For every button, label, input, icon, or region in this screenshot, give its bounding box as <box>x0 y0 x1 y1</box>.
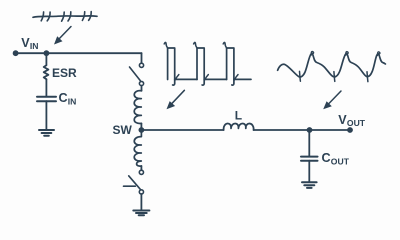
wire COUT to ground <box>308 161 310 182</box>
noise waveform sketch (input HF ripple) <box>33 12 97 22</box>
node A (VIN / ESR junction) <box>44 50 50 56</box>
capacitor CIN <box>37 97 56 101</box>
inductor L <box>224 123 254 130</box>
arrow to VIN node <box>54 27 71 45</box>
wire node B down to COUT <box>308 130 310 156</box>
wire CIN to ground <box>45 101 47 129</box>
wire S2 to ground <box>140 194 142 210</box>
terminal dot VOUT <box>347 127 353 133</box>
wire corner down to switch S1 <box>141 53 143 63</box>
svg-text:OUT: OUT <box>347 118 366 128</box>
resistor ESR <box>44 65 49 79</box>
switch S1 (high-side, open) <box>130 63 144 85</box>
ground (CIN) <box>39 130 54 136</box>
wire SW to L <box>141 129 223 131</box>
svg-text:OUT: OUT <box>331 156 350 166</box>
label VOUT <box>338 113 365 128</box>
switch S2 (low-side, open) <box>124 170 144 194</box>
svg-text:L: L <box>235 109 242 123</box>
svg-text:SW: SW <box>113 123 133 137</box>
svg-text:ESR: ESR <box>52 66 77 80</box>
terminal dot VIN <box>13 50 19 56</box>
wire ESR to CIN <box>45 79 47 96</box>
inductor winding (upper) <box>134 91 141 124</box>
inductor winding (lower) <box>134 130 141 166</box>
ground (COUT) <box>302 182 317 188</box>
arrow to SW node <box>167 90 185 109</box>
wire VIN horizontal <box>16 52 142 54</box>
capacitor COUT <box>301 157 318 161</box>
arrow to VOUT node <box>323 91 341 109</box>
wire node A down to ESR <box>45 53 47 65</box>
square wave sketch (SW node waveform) <box>164 42 251 85</box>
label COUT <box>322 151 350 166</box>
node SW <box>139 127 145 133</box>
wire S1 to upper winding <box>141 86 143 91</box>
wire L to VOUT <box>254 129 350 131</box>
svg-text:C: C <box>59 91 68 105</box>
svg-text:IN: IN <box>30 41 39 51</box>
label CIN <box>59 91 77 106</box>
wire winding to node SW <box>140 123 142 130</box>
ringing waveform sketch (output ripple) <box>278 51 386 81</box>
node B (COUT junction) <box>307 127 313 133</box>
ground (S2) <box>133 211 149 216</box>
svg-text:C: C <box>322 151 331 165</box>
label VIN <box>21 36 38 51</box>
wire winding to switch S2 <box>140 166 142 170</box>
svg-text:IN: IN <box>68 96 77 106</box>
